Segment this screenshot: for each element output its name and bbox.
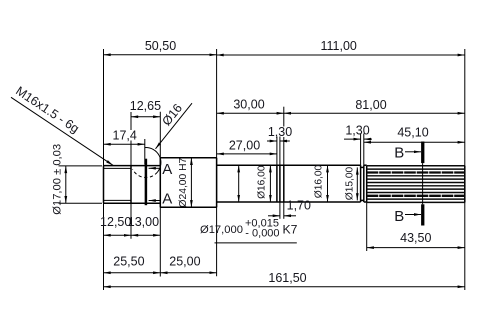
wire groove2 right	[363, 165, 365, 202]
dimension 25,00	[160, 255, 216, 273]
svg-text:A: A	[162, 191, 172, 208]
dimension 161,50	[104, 271, 465, 287]
svg-text:- 0,000: - 0,000	[245, 228, 279, 240]
svg-text:Ø16: Ø16	[159, 101, 185, 128]
wire left face	[103, 166, 105, 204]
dimension 1,30 groove1	[267, 125, 292, 141]
wire 17.4 extension thin	[144, 139, 146, 165]
arrow A bottom	[149, 200, 160, 202]
label M16x1.5-6g with leader	[11, 84, 113, 166]
wire spline start line	[366, 166, 368, 203]
wire right face	[464, 166, 466, 203]
dimension D17,000 K7 line	[269, 165, 271, 202]
spline section lines	[367, 166, 465, 203]
svg-text:111,00: 111,00	[321, 39, 357, 53]
dimension 50,50	[104, 39, 217, 55]
wire extension line x=160.3 shoulder	[159, 112, 161, 277]
wire D24 bottom	[160, 206, 216, 208]
arrow A top	[149, 167, 160, 169]
svg-text:Ø16,00: Ø16,00	[313, 164, 324, 198]
dimension D24,00 H7	[178, 157, 191, 207]
svg-text:12,65: 12,65	[130, 99, 161, 113]
wire extension line x=131 thread end	[130, 112, 132, 130]
svg-text:17,4: 17,4	[113, 129, 137, 143]
arrow B top	[405, 151, 421, 153]
svg-text:45,10: 45,10	[397, 126, 428, 140]
wire neck bottom	[364, 201, 367, 203]
wire extension line x=279.9 groove1 right up	[279, 137, 281, 166]
revolved section circle D16	[133, 148, 161, 178]
svg-text:13,00: 13,00	[128, 215, 159, 229]
svg-text:A: A	[162, 161, 172, 178]
wire groove2 bottom top	[361, 166, 364, 168]
wire extension line x=276.9 groove1 left	[276, 137, 278, 166]
dimension 45,10	[364, 126, 465, 143]
svg-text:1,30: 1,30	[268, 125, 292, 139]
wire groove2 left	[360, 165, 362, 202]
dimension 13,00	[128, 215, 161, 236]
wire extension line x=283.8 step up	[283, 107, 285, 127]
dimension D17 +-0,03	[51, 144, 66, 215]
svg-text:1,30: 1,30	[345, 124, 369, 138]
svg-text:27,00: 27,00	[229, 138, 260, 152]
dimension 12,65	[130, 99, 161, 117]
svg-text:Ø24,00 H7: Ø24,00 H7	[178, 157, 189, 207]
svg-text:M16x1.5 - 6g: M16x1.5 - 6g	[13, 84, 82, 136]
wire left extension line x=103.5	[103, 49, 105, 290]
wire text shelf	[215, 242, 297, 244]
wire groove1 left	[276, 165, 278, 202]
thread minor lines	[104, 168, 132, 200]
wire D16 bottom	[217, 201, 361, 203]
dimension 12,50	[100, 215, 131, 236]
wire thread end line	[130, 166, 132, 204]
wire extension line x=216.6 step	[216, 49, 218, 276]
wire D16 top	[217, 164, 361, 166]
dimension D16,00 second	[313, 164, 327, 202]
dimension 43,50	[367, 231, 465, 248]
dimension 81,00	[284, 98, 465, 113]
dimension 111,00	[217, 39, 465, 55]
wire groove1 right	[279, 165, 281, 202]
svg-text:K7: K7	[283, 223, 298, 237]
svg-text:25,00: 25,00	[169, 255, 200, 269]
svg-text:25,50: 25,50	[113, 255, 144, 269]
svg-text:Ø17,00 ± 0,03: Ø17,00 ± 0,03	[51, 144, 63, 215]
svg-text:1,70: 1,70	[287, 199, 311, 213]
wire right extension line x=464.8	[464, 49, 466, 290]
svg-text:161,50: 161,50	[268, 271, 306, 285]
section line A-A thick	[145, 139, 173, 208]
svg-text:B: B	[394, 208, 404, 225]
svg-text:Ø17,000: Ø17,000	[200, 224, 243, 236]
dimension D16,00 first	[239, 165, 268, 202]
wire extension Ø17 top	[59, 165, 103, 167]
wire thread major bottom	[104, 202, 161, 204]
wire step line D24-D16	[216, 158, 218, 208]
wire extension line x=363.8 groove2 right up	[363, 134, 365, 166]
shaft outline profile	[104, 158, 465, 208]
section line B-B	[394, 142, 422, 226]
wire extension Ø17 bottom	[59, 202, 103, 204]
svg-text:Ø15,00: Ø15,00	[344, 166, 355, 200]
wire seat end line	[283, 165, 285, 202]
svg-text:12,50: 12,50	[100, 215, 131, 229]
svg-text:50,50: 50,50	[145, 39, 176, 53]
wire neck top	[364, 164, 367, 166]
dimension 27,00	[217, 138, 277, 154]
svg-text:B: B	[394, 145, 404, 162]
wire extension line x=283.8 step down	[283, 202, 285, 219]
wire groove2 bottom bottom	[361, 199, 364, 201]
arrow B bottom	[405, 214, 421, 216]
wire extension line x=367.5 spline start down	[366, 202, 368, 251]
dimension D15,00	[344, 166, 357, 200]
dimension 25,50	[104, 255, 161, 273]
label D17,000 tolerance K7	[200, 217, 298, 243]
dimension 30,00	[217, 97, 284, 113]
svg-text:81,00: 81,00	[355, 98, 386, 112]
wire extension line x=360.6 groove2 left up	[360, 134, 362, 166]
svg-text:Ø16,00: Ø16,00	[256, 165, 267, 199]
wire extension line x=279.9 groove1 right down	[279, 202, 281, 219]
dimension 17,4	[104, 129, 145, 145]
label D16 with leader	[156, 101, 193, 149]
svg-text:30,00: 30,00	[233, 97, 264, 111]
wire thread major top	[104, 165, 161, 167]
wire shoulder line	[159, 158, 161, 208]
wire D24 top	[160, 157, 216, 159]
svg-text:43,50: 43,50	[400, 231, 431, 245]
dimension 1,70	[268, 199, 311, 216]
dimension 1,30 groove2	[344, 124, 372, 140]
